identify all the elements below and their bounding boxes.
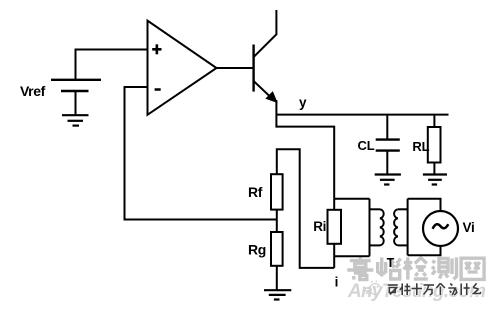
ground (CL): [375, 175, 401, 185]
svg-text:CL: CL: [358, 138, 375, 153]
watermark small dark text 硬件十万个为什么 (drawn strokes): [388, 283, 481, 295]
svg-text:RL: RL: [412, 139, 429, 154]
svg-text:T: T: [387, 256, 395, 270]
source Vi sine mark: [433, 224, 449, 229]
svg-text:Ri: Ri: [313, 219, 326, 234]
watermark big gray text 嘉峪检测网 (drawn strokes): [347, 257, 484, 279]
resistor RL: [433, 116, 435, 127]
resistor Ri: [333, 199, 335, 210]
op-amp U1: [148, 21, 217, 115]
wire op-amp inverting input feedback: [125, 87, 278, 220]
wire battery- to ground: [75, 91, 77, 115]
battery Vref: [51, 80, 101, 91]
source Vi circle: [423, 211, 458, 246]
svg-text:Rg: Rg: [248, 241, 266, 257]
ground (RL): [423, 175, 447, 185]
transformer T primary winding: [370, 199, 384, 257]
svg-text:i: i: [335, 275, 339, 290]
transistor Q1 emitter arrowhead: [266, 92, 276, 102]
wire Vi bottom to secondary: [408, 246, 441, 255]
transistor Q1 collector: [254, 10, 277, 57]
wire lower branch to Ri: [276, 127, 334, 199]
resistor Rf: [271, 174, 283, 209]
wire battery+ to op-amp + input: [76, 50, 148, 80]
op-amp minus marking: [155, 88, 161, 91]
transistor Q1 emitter: [254, 81, 271, 98]
svg-text:y: y: [299, 95, 307, 110]
svg-text:Vref: Vref: [20, 83, 46, 99]
op-amp plus marking: [152, 44, 161, 54]
capacitor CL: [386, 116, 388, 140]
wire op-amp output to base: [217, 67, 254, 69]
transformer T secondary winding: [394, 199, 407, 256]
wire Rg to ground: [276, 266, 278, 290]
wire Rf top to node i: [277, 149, 334, 268]
wire node i to transformer bottom: [334, 255, 369, 257]
wire emitter down to node y: [275, 100, 277, 128]
transistor Q1 base bar: [252, 45, 254, 92]
node y rail: [276, 114, 448, 116]
svg-text:Vi: Vi: [463, 220, 475, 235]
watermark logo circle: [363, 281, 380, 295]
svg-text:Rf: Rf: [248, 184, 263, 200]
ground (Rg): [264, 290, 291, 299]
wire secondary top to Vi: [408, 199, 441, 211]
wire Ri top to transformer: [334, 198, 369, 200]
wire Rf to Rg: [276, 210, 278, 232]
resistor Rg: [271, 232, 283, 266]
ground (Vref): [62, 115, 89, 125]
